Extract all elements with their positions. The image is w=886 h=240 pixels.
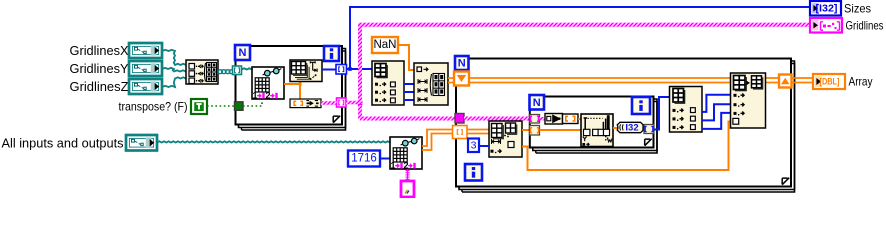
wire orange shift rail — [469, 78, 731, 83]
node Index Array 1 — [372, 61, 404, 105]
svg-text:I32: I32 — [625, 122, 638, 133]
loop2 pink solid tunnel — [455, 114, 464, 124]
svg-text:1716: 1716 — [351, 153, 377, 165]
node grid-draw — [290, 60, 322, 82]
svg-text:Array: Array — [849, 75, 873, 89]
wire blue node-tunnel — [322, 69, 336, 71]
loop1 teal tunnel — [233, 66, 242, 75]
loop3 blue tunnel — [644, 125, 654, 134]
constant NaN — [372, 37, 398, 53]
loop2 N terminal — [455, 56, 469, 70]
subVI GridXYZ 2 — [390, 137, 422, 171]
constant 1716 — [348, 151, 380, 167]
wire orange out rail — [766, 78, 814, 83]
svg-text:1: 1 — [390, 161, 395, 171]
loop2 i terminal — [465, 164, 482, 181]
svg-text:[DBL]: [DBL] — [820, 76, 840, 87]
wire teal long (All inputs) — [157, 141, 390, 142]
loop1 N terminal — [235, 45, 250, 60]
wire blue tunnel3 out — [654, 97, 670, 130]
node Replace Subset — [731, 73, 766, 128]
svg-text:[I32]: [I32] — [816, 3, 838, 15]
wires blue n1-n2 — [404, 84, 414, 100]
node Interpolate — [489, 121, 522, 157]
subVI GridXYZ 1 — [252, 67, 284, 101]
wire orange tunnel-n3 — [467, 130, 489, 134]
svg-text:N: N — [458, 58, 466, 70]
node Initialize Array — [414, 63, 448, 105]
for-loop 1 frame — [236, 46, 346, 130]
loop3 orange tunnel — [530, 126, 540, 136]
wire blue to node1 — [347, 68, 372, 70]
wire green dotted 2 — [243, 100, 262, 107]
wire pink inside — [464, 117, 530, 121]
wire orange subvi out — [284, 80, 300, 99]
wire orange NaN — [398, 45, 414, 70]
wire pink vertical — [358, 101, 362, 119]
wire pink bottom run — [360, 117, 455, 121]
wire orange c-subvi — [578, 118, 581, 120]
svg-text:GridlinesZ: GridlinesZ — [70, 79, 129, 94]
indicator Sizes — [810, 1, 841, 16]
svg-text:2: 2 — [265, 91, 270, 101]
node I32 conversion — [617, 122, 643, 133]
indicator Gridlines — [810, 18, 842, 33]
wire blue 1716 — [380, 158, 390, 160]
svg-text:N: N — [533, 97, 541, 109]
wire blue 3 — [479, 145, 489, 147]
wire pink top rail — [359, 23, 811, 27]
wires blue n6-n7 — [702, 95, 731, 129]
control GridlinesZ — [129, 79, 162, 94]
junction orange — [299, 83, 302, 86]
wire pink stub3 — [540, 117, 546, 120]
loop3 N terminal — [530, 95, 545, 110]
svg-text:N: N — [239, 47, 247, 59]
svg-text:1: 1 — [252, 91, 257, 101]
svg-text:NaN: NaN — [373, 39, 396, 51]
svg-text:GridlinesX: GridlinesX — [70, 43, 129, 58]
loop1 i terminal — [324, 46, 339, 61]
loop2 shift register right — [779, 75, 792, 88]
wire teal beads — [219, 70, 234, 74]
loop2 orange tunnel — [453, 126, 468, 139]
constant 3 — [468, 139, 479, 153]
wire orange subvi2 out — [422, 130, 453, 151]
node Build Array — [186, 60, 218, 84]
node ArrayToCluster — [290, 99, 321, 108]
control All inputs and outputs — [126, 135, 157, 151]
wire teal to subvi — [242, 68, 252, 69]
wire teal Y — [162, 68, 186, 72]
indicator Array — [813, 74, 845, 89]
wire orange tunnel3-subvi — [540, 129, 582, 131]
loop1 magenta tunnel — [337, 98, 347, 107]
constant pink path — [401, 181, 414, 197]
constant T boolean — [191, 99, 207, 114]
wire orange subvi3-I32 — [613, 127, 618, 129]
node ClusterToArray — [545, 114, 578, 125]
wire pink ladder — [406, 170, 410, 172]
svg-text:transpose? (F): transpose? (F) — [119, 100, 188, 114]
junction blue — [348, 67, 352, 71]
control GridlinesX — [129, 43, 162, 58]
for-loop 3 frame — [530, 97, 657, 154]
wire orange n2-shift — [448, 78, 454, 83]
control GridlinesY — [129, 61, 162, 76]
svg-text:3: 3 — [471, 140, 477, 152]
loop3 i terminal — [632, 97, 650, 114]
junction pink — [358, 101, 362, 105]
loop3 pink tunnel — [530, 115, 540, 124]
wire green dotted — [207, 105, 235, 107]
wire orange n3 out1 — [522, 129, 530, 131]
svg-text:GridlinesY: GridlinesY — [70, 61, 129, 76]
wire teal X — [162, 50, 186, 65]
svg-text:Sizes: Sizes — [844, 2, 871, 16]
wire pink node-tunnel — [321, 101, 337, 104]
for-loop 2 frame — [456, 59, 795, 193]
wire orange n3 down — [522, 122, 731, 171]
loop2 shift register left — [454, 72, 469, 86]
loop1 blue tunnel — [336, 65, 347, 75]
wire pink vertical up — [358, 23, 362, 104]
svg-text:Gridlines: Gridlines — [846, 19, 884, 33]
wire blue sizes rail — [347, 7, 811, 70]
svg-text:All inputs and outputs: All inputs and outputs — [2, 136, 124, 151]
wire teal Z — [162, 77, 186, 87]
loop1 green tunnel — [235, 102, 244, 111]
node Index Array 2 — [670, 87, 703, 133]
wire pink stub — [346, 101, 361, 104]
subVI pulse — [581, 114, 613, 147]
